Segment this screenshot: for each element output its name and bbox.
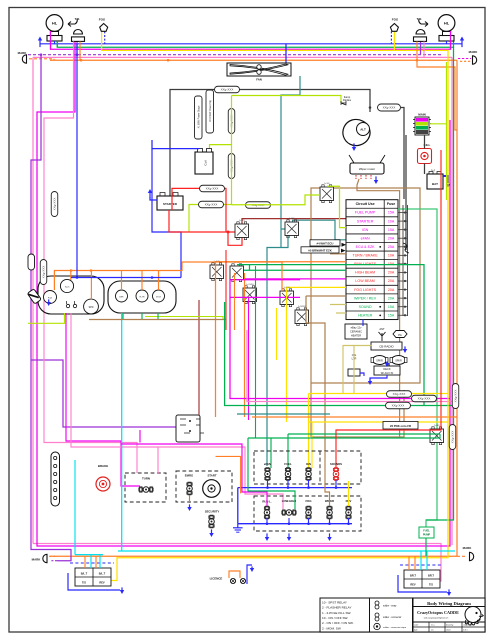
- wire purple park trunk: [28, 54, 443, 56]
- wire blue cig ground: [360, 373, 364, 376]
- svg-text:2 - ON / OFF / ON SW.: 2 - ON / OFF / ON SW.: [322, 621, 354, 625]
- junction orange gauge 2: [90, 269, 93, 272]
- svg-text:#4 WHT ECU: #4 WHT ECU: [317, 241, 334, 245]
- svg-text:SOUND: SOUND: [359, 305, 372, 309]
- fuel pump FUEL PUMP: [419, 527, 434, 538]
- svg-text:Coil: Coil: [204, 160, 208, 166]
- wire black starter feed: [170, 90, 370, 197]
- wire black kill to bat: [424, 164, 426, 175]
- wire blue tail bracket left: [68, 563, 120, 590]
- svg-text:2x FAN: 2x FAN: [289, 217, 295, 220]
- wire teal fan circuit: [281, 76, 300, 248]
- wire starter battery stub: [150, 197, 157, 200]
- wire orange dash to right mark2: [460, 60, 471, 62]
- relay R4 run: [210, 261, 224, 281]
- ground arrow licence: [250, 566, 254, 572]
- wire pink ts-right pin: [423, 41, 425, 57]
- battery feed arrow starter: [148, 189, 152, 198]
- wire teal relay left: [281, 228, 285, 230]
- connector pill purple top: [28, 254, 35, 270]
- wire khaki audio feed 2: [343, 346, 354, 394]
- wire cyan tail pins left: [90, 555, 92, 568]
- svg-text:Tach: Tach: [65, 286, 70, 288]
- wire orange panel branch: [216, 456, 241, 493]
- switch LOW-HIGH toggle: [282, 510, 296, 516]
- wire teal mid: [237, 413, 330, 415]
- deck W/ AUX IN: [374, 366, 400, 375]
- wire cyan trunk bottom: [75, 554, 103, 556]
- wire green high-beam trunk: [57, 41, 453, 48]
- junction orange mid: [167, 59, 170, 62]
- svg-text:rev: rev: [431, 630, 434, 632]
- svg-text:25A: 25A: [388, 245, 395, 249]
- fuse holder left of cluster: [27, 289, 41, 304]
- svg-text:DEF.: DEF.: [119, 296, 124, 298]
- gauge fuel: [44, 291, 57, 304]
- relay R8 wiper: [295, 306, 309, 326]
- svg-text:H-TR: H-TR: [140, 296, 145, 298]
- svg-text:HEATER: HEATER: [358, 313, 373, 317]
- svg-text:eFAN: eFAN: [264, 462, 271, 466]
- wire orange runlights fuse stub: [215, 261, 346, 263]
- wire orange trunk right vertical: [456, 60, 458, 556]
- wire chartreuse main link: [429, 123, 447, 125]
- junction orange gauge 1: [70, 269, 73, 272]
- wire yellow ign drop b: [311, 422, 313, 468]
- gauge volt VOLT: [153, 290, 165, 302]
- wire orange gauge bus: [54, 262, 182, 290]
- turn signal T/S right: [414, 17, 429, 41]
- wire blue battery positive: [443, 176, 448, 183]
- wire orange gauge drops: [70, 271, 72, 281]
- svg-text:FOG: FOG: [392, 18, 399, 22]
- svg-text:20A: 20A: [388, 271, 395, 275]
- svg-text:20A: 20A: [388, 296, 395, 300]
- switch FOG toggle: [306, 506, 312, 519]
- wire yellow right fog drop: [393, 31, 395, 50]
- connector pill left lower: [51, 452, 60, 506]
- switch REV toggle: [346, 506, 352, 519]
- ground arrow deck: [368, 378, 372, 385]
- ecu arrow 1: [342, 243, 347, 247]
- label oval starter 2: [199, 201, 224, 208]
- ground arrow security: [209, 529, 213, 537]
- junction orange right: [416, 59, 419, 62]
- starter solenoid STARTER: [157, 193, 183, 211]
- ground arrow cb radio: [403, 346, 407, 353]
- wire red sounds: [336, 150, 441, 468]
- wire red relay to fuse: [242, 219, 346, 224]
- speaker to deck link: [388, 363, 390, 366]
- dash panel brown enclosure: [311, 188, 420, 437]
- turn switch dashed box: [125, 473, 166, 502]
- svg-text:XXg-XXX: XXg-XXX: [383, 106, 396, 110]
- svg-text:LOW-HIGH: LOW-HIGH: [282, 499, 296, 503]
- svg-text:HIGH BEAM: HIGH BEAM: [355, 271, 375, 275]
- wire magenta flasher drop: [139, 430, 141, 443]
- wire pink ts-left run: [44, 41, 137, 473]
- tail connector table right: [404, 570, 440, 588]
- wire magenta low drop: [230, 280, 300, 298]
- brake switch BRAKE: [96, 464, 110, 491]
- svg-text:2 - MOM. SW: 2 - MOM. SW: [322, 626, 341, 630]
- wire pink trunk right vertical: [451, 57, 453, 545]
- switch FUEL toggle: [285, 468, 291, 481]
- wire blue gauge left drop: [76, 44, 78, 278]
- wire purple jog to relay: [31, 360, 176, 427]
- wire orange tail pins right: [408, 556, 410, 570]
- wire brown gauge bus down: [89, 319, 226, 321]
- ecu label #5 BRN/WHT EZK: [301, 247, 339, 253]
- svg-text:PA: PA: [398, 333, 402, 337]
- switch RUN L toggle: [264, 506, 270, 519]
- svg-text:BR.T: BR.T: [428, 574, 434, 578]
- octopus logo: [465, 607, 483, 626]
- svg-text:drawn by: drawn by: [446, 625, 453, 627]
- switch panel dashed box row B: [254, 496, 361, 531]
- svg-text:WIPER / REV: WIPER / REV: [354, 296, 377, 300]
- diode pack 3amp Diodes: [341, 95, 352, 105]
- start button START: [203, 474, 221, 498]
- marker half-lens bottom-right: [470, 552, 474, 560]
- gauge cluster right pod: [108, 281, 176, 313]
- wire orange relay drop 3: [234, 273, 236, 330]
- wire orange tail pins left2: [95, 556, 97, 568]
- marker half-lens bottom-left: [43, 554, 47, 562]
- wire blue coil feed: [152, 140, 199, 149]
- relay R7 fog: [280, 287, 294, 307]
- wire blue deck ground: [370, 375, 387, 381]
- svg-text:#1 85W Power Stage: #1 85W Power Stage: [197, 105, 200, 128]
- wire cyan tail pins left2: [99, 555, 101, 568]
- alternator ALT: [343, 119, 370, 145]
- fog lamp right: [392, 18, 399, 22]
- connector pill left upper: [51, 192, 58, 217]
- wire black main bus 2: [405, 135, 407, 250]
- wire pink cluster down: [71, 313, 283, 509]
- svg-text:15A: 15A: [388, 313, 395, 317]
- svg-text:XXg-XXX: XXg-XXX: [53, 198, 57, 211]
- svg-text:10A: 10A: [388, 254, 395, 258]
- ground arrow cluster: [47, 299, 51, 306]
- ground arrow emrg: [187, 504, 191, 511]
- svg-text:Circuit Use: Circuit Use: [356, 202, 375, 206]
- wire green mid right: [225, 302, 454, 406]
- wire cyan tail pins right2: [426, 551, 428, 570]
- wire green htr down: [141, 313, 143, 320]
- wire pink mid right: [247, 330, 452, 402]
- svg-text:XXg-XXX: XXg-XXX: [418, 397, 431, 401]
- licence lamp LICENCE: [210, 577, 246, 584]
- wire magenta HL-left pin: [50, 31, 52, 49]
- svg-text:2x IGN: 2x IGN: [324, 183, 330, 185]
- ground arrow sw2: [287, 533, 291, 541]
- fuse output bus: [398, 205, 408, 316]
- label oval chartreuse vertical: [228, 109, 235, 134]
- svg-text:T/S: T/S: [429, 583, 433, 587]
- svg-text:CrazyOctopus CADDE: CrazyOctopus CADDE: [417, 610, 459, 615]
- wire orange trunk top: [50, 59, 457, 61]
- svg-text:10A: 10A: [388, 219, 395, 223]
- svg-text:MARK: MARK: [463, 546, 473, 550]
- wire red relay loop2: [228, 232, 242, 245]
- wire magenta relay drop ext: [248, 297, 250, 420]
- svg-text:FUEL PUMP: FUEL PUMP: [355, 211, 376, 215]
- svg-text:sheet: sheet: [446, 629, 451, 632]
- fog lamp left: [99, 18, 106, 22]
- svg-text:XXg-XXX: XXg-XXX: [393, 392, 406, 396]
- svg-text:XXg-XXX: XXg-XXX: [206, 187, 219, 191]
- svg-text:T/S: T/S: [82, 581, 86, 585]
- flasher relay R9: [176, 415, 204, 442]
- relay R6 low: [243, 284, 257, 304]
- svg-text:B/L.T: B/L.T: [99, 572, 106, 576]
- wire brown wiper feed: [357, 179, 400, 437]
- svg-text:MARK: MARK: [469, 50, 479, 54]
- svg-text:solder - connector: solder - connector: [383, 616, 402, 619]
- headlight HL right: [438, 15, 455, 41]
- power stage module #1: [195, 96, 203, 139]
- svg-text:SOUNDS: SOUNDS: [330, 462, 342, 466]
- wire green relay drop mid: [255, 266, 257, 438]
- gauge heater H-TR: [136, 290, 148, 302]
- svg-text:IGN: IGN: [362, 228, 369, 232]
- svg-text:ALT: ALT: [360, 128, 366, 132]
- main connector MAIN: [413, 113, 431, 136]
- wire purple left vertical: [31, 55, 41, 256]
- marker lamp MARK top-right: [469, 50, 479, 54]
- wire green HL-left pin: [56, 41, 58, 47]
- switch panel sounds divider: [319, 451, 321, 484]
- wire orange gauge drop5: [158, 271, 160, 291]
- svg-text:TURN / BRAKE: TURN / BRAKE: [353, 254, 379, 258]
- wire orange run drop: [215, 262, 217, 417]
- ignition coil: [195, 149, 213, 175]
- wire chartreuse top run: [232, 96, 342, 104]
- wire orange mid: [252, 416, 457, 418]
- wire green def down: [122, 313, 124, 320]
- tail connector table left: [75, 568, 111, 586]
- wire magenta left vertical: [37, 41, 450, 546]
- ground arrow spk: [385, 361, 389, 367]
- svg-text:XXg-XXX: XXg-XXX: [454, 390, 458, 403]
- CB radio: [371, 342, 402, 350]
- svg-text:XXg-XXX: XXg-XXX: [42, 266, 46, 279]
- wire teal efan fuse stub: [293, 220, 346, 240]
- wire blue ground bus top: [40, 43, 462, 45]
- wire khaki sound fuse stub: [330, 304, 346, 306]
- wire orange dash to right mark: [457, 555, 466, 557]
- wire orange ts-right pin: [417, 41, 457, 130]
- svg-text:solder - connector+tape: solder - connector+tape: [383, 626, 407, 629]
- svg-text:XXg-XXX: XXg-XXX: [205, 203, 218, 207]
- wire khaki audio feed: [354, 346, 372, 394]
- svg-text:XXg-XXX: XXg-XXX: [221, 88, 234, 92]
- fuse panel table: [346, 200, 398, 320]
- wire blue licence ground: [247, 565, 252, 584]
- wire blue HL-left pin: [54, 41, 56, 44]
- svg-text:SPKR: SPKR: [376, 360, 383, 363]
- wire black main to kill: [424, 135, 426, 149]
- wire blue heater drop: [362, 320, 364, 327]
- svg-text:TURN: TURN: [142, 477, 150, 481]
- wire orange tail pins right2: [414, 556, 416, 570]
- fog lamp head left: [100, 24, 108, 32]
- wire orange dash to left mark: [29, 59, 54, 60]
- wire chartreuse ign relay 2: [327, 186, 346, 227]
- splice symbol box: [370, 598, 413, 632]
- wire purple dash to bottom mark: [50, 560, 57, 562]
- svg-text:REV: REV: [410, 583, 416, 587]
- junction purple left: [40, 53, 43, 56]
- label oval top black bus: [215, 86, 240, 93]
- indicator pins: [66, 301, 76, 308]
- svg-text:#5 BRN/WHT EZK: #5 BRN/WHT EZK: [308, 248, 331, 252]
- ground symbol panel: [233, 524, 243, 533]
- svg-text:W/ AUX IN: W/ AUX IN: [381, 371, 394, 375]
- svg-text:FOG: FOG: [305, 499, 311, 503]
- switch TURN toggle: [139, 487, 153, 493]
- wire purple t/s drop left: [76, 41, 78, 54]
- wire chartreuse coil link: [210, 145, 232, 152]
- svg-text:20A: 20A: [388, 288, 395, 292]
- svg-text:LOW BEAM: LOW BEAM: [355, 279, 374, 283]
- junction orange top: [80, 59, 83, 62]
- relay R3 ign: [320, 183, 334, 203]
- svg-text:1 of 1: 1 of 1: [463, 630, 468, 632]
- marker lamp MARK top-left: [18, 51, 28, 55]
- svg-text:#6 PNK onto FR: #6 PNK onto FR: [390, 424, 411, 428]
- svg-text:Diodes: Diodes: [343, 98, 352, 102]
- svg-text:SPD: SPD: [89, 307, 94, 309]
- fog lamp head right: [390, 24, 398, 32]
- wire magenta cluster down: [66, 313, 140, 486]
- svg-text:FAN: FAN: [256, 78, 262, 82]
- wire green rev drop: [248, 434, 440, 438]
- wire red relay drop ext: [225, 250, 227, 330]
- wire green high drop: [249, 265, 251, 271]
- ground arrow wiper: [374, 176, 378, 184]
- ground arrow sw1: [265, 533, 269, 541]
- switch panel dashed box row A: [254, 451, 361, 484]
- battery arrow: [446, 182, 450, 188]
- svg-text:scale: scale: [414, 625, 418, 627]
- dash panel brown bottom: [311, 390, 404, 437]
- wire orange ts-left pin: [79, 41, 81, 60]
- wire yellow fog trunk: [102, 31, 448, 580]
- svg-text:LICENCE: LICENCE: [210, 577, 223, 581]
- wire khaki heater fuse stub: [336, 312, 346, 314]
- wire orange relay drop 2: [244, 273, 246, 417]
- wire pink trunk left vertical: [32, 57, 34, 543]
- svg-text:SECURITY: SECURITY: [205, 510, 220, 514]
- speaker SPK L: [371, 356, 388, 365]
- wire green fuel drop: [288, 433, 440, 435]
- wire orange run relay: [182, 262, 282, 291]
- wire red starter out: [172, 188, 226, 232]
- wire magenta HL-right pin: [450, 31, 452, 49]
- wire yellow rev feed: [348, 481, 350, 506]
- svg-text:BR.T: BR.T: [410, 574, 416, 578]
- gauge defroster DEF: [116, 290, 128, 302]
- wire chartreuse cluster down: [28, 313, 65, 323]
- ecu arrow 2: [341, 249, 346, 253]
- battery BAT: [427, 168, 443, 189]
- svg-text:FOG LIGHTS: FOG LIGHTS: [354, 288, 376, 292]
- svg-text:10 - SPST RELAY: 10 - SPST RELAY: [322, 600, 347, 604]
- junction blue gauge2: [151, 276, 154, 279]
- svg-text:ANT: ANT: [379, 327, 385, 331]
- svg-text:eBay 12v: eBay 12v: [351, 326, 363, 330]
- svg-text:ECU & EZK: ECU & EZK: [356, 245, 376, 249]
- wire orange trunk bottom: [50, 555, 457, 557]
- wire brown emrg ground: [189, 495, 191, 503]
- wire green rev drop v: [270, 438, 272, 468]
- wire yellow right top vert: [447, 50, 449, 557]
- power arrow top-right: [460, 37, 464, 48]
- wire red starter down: [169, 210, 235, 232]
- wire yellow fog relay drop: [286, 287, 288, 422]
- svg-text:BAT: BAT: [432, 182, 438, 186]
- svg-text:CB RADIO: CB RADIO: [379, 345, 394, 349]
- ground arrow sw4: [327, 533, 331, 541]
- svg-text:15A: 15A: [388, 228, 395, 232]
- svg-text:20A: 20A: [388, 236, 395, 240]
- marker half-lens top-right: [473, 56, 477, 64]
- wire magenta mid right: [230, 297, 450, 398]
- wiper motor: [349, 155, 385, 179]
- wire orange tail pins left: [84, 556, 86, 568]
- wire magenta dash to right mark: [458, 58, 471, 60]
- turn signal T/S left: [68, 17, 85, 41]
- wire brown turn fuse stub: [330, 253, 346, 255]
- svg-text:SPKR: SPKR: [395, 360, 402, 363]
- wire green fuelpump down: [425, 538, 427, 556]
- svg-text:FUEL: FUEL: [423, 530, 430, 533]
- marker half-lens top-left: [22, 55, 26, 63]
- label oval mid-right yellow: [387, 391, 412, 398]
- wire chartreuse ign relay: [232, 195, 321, 205]
- svg-text:STARTER: STARTER: [357, 219, 374, 223]
- wire orange dash bottom-left mark: [49, 555, 56, 557]
- svg-text:2x REV: 2x REV: [434, 425, 441, 427]
- power arrow top-left: [38, 37, 42, 48]
- svg-text:BRAKE: BRAKE: [98, 464, 108, 468]
- wire cyan cluster down: [121, 313, 123, 551]
- junction purple t/s: [76, 53, 79, 56]
- wire black alt to main: [401, 108, 404, 200]
- svg-text:REV: REV: [99, 581, 105, 585]
- heater eBay 12v CERAMIC HEATER: [345, 324, 367, 339]
- switch eFAN toggle: [265, 468, 271, 481]
- wire yellow foglights fuse stub: [286, 286, 346, 288]
- pink note box #6 PNK onto FR: [383, 422, 418, 430]
- junction red relay: [227, 231, 230, 234]
- wire yellow fog relay drop b: [276, 308, 278, 360]
- svg-text:MARK: MARK: [32, 558, 42, 562]
- wire yellow mid right: [309, 393, 449, 395]
- svg-text:solder - wrap: solder - wrap: [383, 605, 397, 608]
- wire pink trunk top-left-right: [33, 56, 452, 58]
- wire orange licence: [229, 571, 240, 578]
- wire green volt down: [157, 313, 159, 320]
- wire springgreen fuel pump fuse: [398, 209, 437, 527]
- wire blue switch ground bus upper: [238, 480, 352, 489]
- cigarette lighter CIG LTR: [348, 353, 360, 376]
- wire blue fog dash right: [390, 31, 392, 43]
- svg-text:PUMP: PUMP: [423, 534, 431, 537]
- svg-text:eFAN: eFAN: [361, 236, 370, 240]
